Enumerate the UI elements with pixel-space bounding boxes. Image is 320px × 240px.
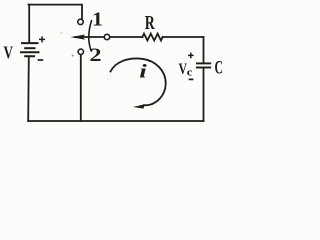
battery minus sign bbox=[38, 59, 44, 61]
wire: switch contact 2 down to bottom rail bbox=[80, 54, 82, 121]
battery V plate short bottom bbox=[25, 55, 34, 57]
svg-text:V: V bbox=[4, 43, 14, 63]
battery V plate long lower bbox=[21, 51, 39, 53]
svg-text:C: C bbox=[215, 59, 224, 79]
wire: right vertical from capacitor bottom plate to bottom rail bbox=[203, 68, 205, 121]
svg-text:2: 2 bbox=[90, 45, 102, 66]
scan speck lower left bbox=[107, 78, 109, 80]
switch throw arc between contacts 1 and 2 bbox=[89, 21, 92, 51]
battery V plate short bbox=[25, 47, 34, 49]
wire: right vertical from corner down to capacitor top plate bbox=[203, 37, 205, 63]
svg-text:R: R bbox=[145, 13, 156, 34]
resistor R zigzag bbox=[142, 34, 162, 41]
wire: bottom horizontal rail bbox=[28, 120, 203, 122]
svg-text:c: c bbox=[187, 67, 193, 79]
capacitor plus sign (Vc polarity) bbox=[188, 53, 194, 59]
battery V plate long top bbox=[22, 42, 38, 44]
scan speck left of contact 2 bbox=[72, 55, 74, 57]
capacitor C bottom plate bbox=[197, 67, 210, 69]
wire: top horizontal from battery to switch contact 1 bbox=[29, 5, 83, 19]
current loop i arc (clockwise) bbox=[111, 58, 166, 105]
wire: left vertical from battery - terminal down to bottom wire bbox=[27, 57, 30, 121]
wire: switch pole to resistor R bbox=[110, 36, 143, 38]
capacitor minus sign (Vc polarity) bbox=[189, 78, 194, 80]
switch arm arrowhead bbox=[71, 35, 86, 40]
switch arm line from pole toward contacts bbox=[75, 36, 105, 38]
battery plus sign bbox=[39, 36, 45, 42]
wire: left vertical from top wire down to battery + terminal bbox=[28, 5, 30, 43]
switch contact 1 circle bbox=[78, 19, 83, 24]
switch contact 2 circle bbox=[78, 49, 83, 54]
current loop arrowhead bbox=[133, 104, 145, 108]
svg-text:i: i bbox=[139, 62, 148, 83]
switch pole circle bbox=[104, 34, 109, 39]
capacitor C top plate bbox=[197, 62, 210, 64]
scan speck near switch arm bbox=[61, 32, 63, 34]
wire: resistor R to top-right corner bbox=[163, 36, 204, 38]
svg-text:1: 1 bbox=[92, 9, 103, 31]
